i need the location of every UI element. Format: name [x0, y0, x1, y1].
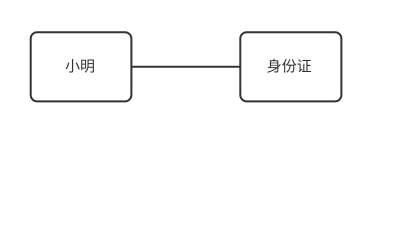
- node 小明: [31, 32, 132, 101]
- wire: [131, 66, 240, 68]
- node 身份证: [240, 32, 341, 101]
